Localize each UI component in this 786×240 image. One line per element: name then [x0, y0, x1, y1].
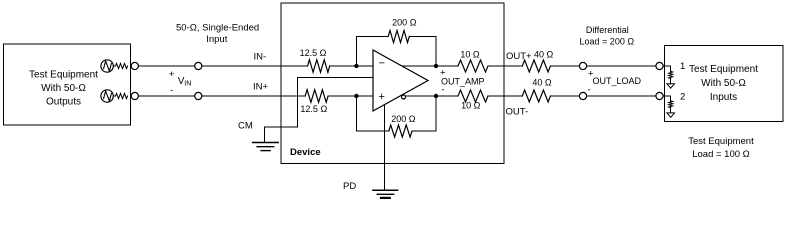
- wire R6 to box edge: [488, 95, 522, 97]
- pin 2 label: [680, 92, 685, 103]
- svg-text:PD: PD: [343, 181, 356, 192]
- R5 value label: [460, 50, 480, 60]
- right test equipment box: [665, 45, 783, 121]
- node OUT+ label: [506, 51, 532, 62]
- wire top to right box: [587, 65, 656, 67]
- R4 value label: [391, 114, 416, 124]
- svg-text:OUT_LOAD: OUT_LOAD: [593, 76, 642, 86]
- wire top rail segment 1: [138, 65, 194, 67]
- PD label: [343, 181, 356, 192]
- wire amp out top: [402, 65, 458, 67]
- svg-text:IN: IN: [184, 81, 191, 88]
- svg-text:40 Ω: 40 Ω: [534, 50, 554, 60]
- output bubble: [402, 95, 406, 99]
- svg-text:1: 1: [680, 61, 685, 72]
- feedback bottom wire right: [412, 96, 436, 131]
- terminal circle left box top: [131, 62, 138, 69]
- VIN terminal circle bottom: [195, 92, 202, 99]
- svg-text:-: -: [441, 85, 444, 96]
- VIN terminal circle top: [195, 62, 202, 69]
- R2 value label: [300, 104, 327, 114]
- right box terminal circle 1: [656, 62, 663, 69]
- OUT_LOAD terminal circle bottom: [579, 92, 586, 99]
- svg-text:200 Ω: 200 Ω: [391, 114, 416, 124]
- svg-text:50-Ω, Single-Ended: 50-Ω, Single-Ended: [176, 23, 259, 34]
- feedback top wire: [356, 37, 388, 67]
- R3 value label: [392, 18, 417, 28]
- wire bottom to right box: [587, 95, 656, 97]
- svg-text:OUT-: OUT-: [506, 107, 529, 118]
- wire R8 to circle: [550, 95, 579, 97]
- junction dot minus input: [354, 64, 358, 68]
- junction dot out top: [434, 64, 438, 68]
- resistor R7 40 ohm top: [522, 60, 550, 72]
- svg-text:12.5 Ω: 12.5 Ω: [300, 48, 327, 58]
- OUT_AMP label: [440, 68, 484, 96]
- resistor R6 10 ohm bottom: [458, 90, 488, 102]
- left box label: [29, 70, 98, 108]
- svg-text:Load = 100 Ω: Load = 100 Ω: [692, 149, 750, 160]
- R6 value label: [461, 101, 481, 111]
- svg-text:Device: Device: [290, 147, 321, 158]
- svg-text:Test Equipment: Test Equipment: [689, 64, 758, 75]
- node IN- label: [254, 52, 267, 63]
- right box load note: [688, 136, 754, 160]
- OUT_LOAD terminal circle top: [579, 62, 586, 69]
- svg-text:With 50-Ω: With 50-Ω: [701, 78, 746, 89]
- junction dot out bottom: [434, 94, 438, 98]
- signal generator VG1: [101, 60, 113, 72]
- left test equipment box: [3, 44, 130, 125]
- R1 value label: [300, 48, 327, 58]
- svg-text:2: 2: [680, 92, 685, 103]
- op-amp U1: [373, 50, 428, 111]
- label 50-ohm single-ended input: [176, 23, 259, 46]
- source resistor RS2: [113, 93, 127, 98]
- CM wire: [264, 78, 373, 143]
- feedback bottom wire: [356, 96, 388, 131]
- wire R7 to circle: [550, 65, 579, 67]
- terminal circle left box bottom: [131, 92, 138, 99]
- resistor R8 40 ohm bottom: [522, 90, 550, 102]
- svg-text:Test Equipment: Test Equipment: [29, 70, 98, 81]
- svg-text:Load = 200 Ω: Load = 200 Ω: [580, 37, 635, 47]
- svg-text:Inputs: Inputs: [710, 92, 737, 103]
- svg-text:-: -: [588, 85, 591, 96]
- pin 1 label: [680, 61, 685, 72]
- node IN+ label: [253, 82, 269, 93]
- op-amp plus sign: [378, 91, 384, 103]
- junction dot plus input: [354, 94, 358, 98]
- resistor R3 200 ohm top: [388, 31, 409, 43]
- wire top rail segment 2: [202, 65, 308, 67]
- svg-text:IN-: IN-: [254, 52, 267, 63]
- CM ground: [253, 143, 279, 151]
- VIN label: [169, 69, 191, 96]
- device box: [281, 3, 504, 163]
- op-amp minus sign: [378, 58, 384, 70]
- svg-text:Input: Input: [206, 34, 227, 45]
- svg-text:CM: CM: [238, 121, 253, 132]
- svg-text:+: +: [378, 91, 384, 103]
- svg-text:OUT_AMP: OUT_AMP: [441, 77, 485, 87]
- resistor R2 12.5 ohm bottom: [305, 90, 328, 103]
- resistor R1 12.5 ohm top: [308, 60, 330, 73]
- wire R5 to box edge: [488, 65, 522, 67]
- svg-text:Test Equipment: Test Equipment: [688, 136, 754, 147]
- load resistor RL2: [663, 96, 674, 117]
- wire R2 to amp: [328, 95, 373, 97]
- svg-text:−: −: [378, 58, 384, 70]
- svg-text:200 Ω: 200 Ω: [392, 18, 417, 28]
- feedback top wire right: [409, 37, 436, 67]
- svg-text:10 Ω: 10 Ω: [461, 101, 481, 111]
- svg-text:With 50-Ω: With 50-Ω: [41, 83, 86, 94]
- wire amp out bottom: [406, 95, 459, 97]
- PD ground: [373, 190, 398, 198]
- signal generator VG2: [101, 90, 113, 102]
- OUT_LOAD label: [588, 69, 642, 96]
- wire R1 to amp: [330, 65, 373, 67]
- device label: [290, 147, 321, 158]
- CM label: [238, 121, 253, 132]
- source resistor RS1: [113, 63, 127, 68]
- load resistor RL1: [663, 66, 674, 88]
- svg-text:-: -: [170, 85, 173, 96]
- svg-text:10 Ω: 10 Ω: [460, 50, 480, 60]
- resistor R4 200 ohm bottom: [389, 125, 412, 137]
- svg-text:40 Ω: 40 Ω: [532, 78, 552, 88]
- svg-text:IN+: IN+: [253, 82, 269, 93]
- PD wire: [384, 105, 386, 190]
- node OUT- label: [506, 107, 529, 118]
- R7 value label: [534, 50, 554, 60]
- right box label: [689, 64, 758, 103]
- wire bottom rail segment 2: [202, 95, 305, 97]
- resistor R5 10 ohm top: [458, 60, 488, 72]
- svg-text:OUT+: OUT+: [506, 51, 532, 62]
- R8 value label: [532, 78, 552, 88]
- wire bottom rail segment 1: [138, 95, 194, 97]
- svg-text:12.5 Ω: 12.5 Ω: [300, 104, 327, 114]
- right box terminal circle 2: [656, 92, 663, 99]
- svg-text:+: +: [169, 69, 175, 80]
- differential load label: [580, 25, 635, 47]
- svg-text:Outputs: Outputs: [46, 97, 81, 108]
- svg-text:Differential: Differential: [586, 25, 629, 35]
